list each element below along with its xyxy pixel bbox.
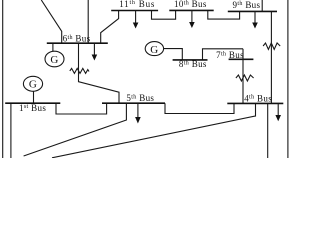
svg-text:G: G xyxy=(50,54,58,66)
wire generator tick at 6th bus xyxy=(52,43,54,51)
bus bar 6th xyxy=(47,42,108,44)
wire from top edge to 6th bus xyxy=(87,0,89,43)
wire 9th bus down to 4th bus xyxy=(270,11,272,103)
wire from 9th bus up to top edge xyxy=(261,0,263,11)
load arrow at 9th bus xyxy=(252,11,258,28)
svg-text:4th Bus: 4th Bus xyxy=(244,93,272,103)
frame left border xyxy=(2,0,4,158)
load arrow at 11th bus xyxy=(133,11,139,29)
wire 7th bus down to 4th bus xyxy=(242,49,244,104)
svg-text:1st Bus: 1st Bus xyxy=(19,103,46,113)
wire link 1st bus to 5th bus xyxy=(56,103,107,114)
load arrow at 5th bus xyxy=(135,103,141,123)
wire link 5th bus to 4th bus xyxy=(165,103,234,113)
resistor zigzag in 6th-5th line xyxy=(70,68,89,73)
frame right border xyxy=(287,0,289,158)
svg-text:G: G xyxy=(150,44,158,56)
svg-text:7th Bus: 7th Bus xyxy=(216,50,244,60)
svg-text:G: G xyxy=(29,79,37,91)
wire diagonal line from 4th bus to lower-left xyxy=(52,103,256,157)
bus bar 11th xyxy=(111,10,158,12)
bus bar 10th xyxy=(169,9,213,11)
generator at 6th bus xyxy=(45,51,64,67)
resistor zigzag in 7th-4th line xyxy=(236,75,254,81)
wire link 10th bus to 9th bus xyxy=(208,10,240,19)
wire generator G2 to 8th bus xyxy=(164,49,183,60)
generator at 1st bus xyxy=(23,76,42,91)
wire link 11th bus to 10th bus xyxy=(152,10,176,19)
load arrow at 4th bus xyxy=(275,103,281,121)
bus bar 5th xyxy=(102,102,165,104)
wire 4th bus down to bottom edge xyxy=(267,103,269,158)
svg-text:10th Bus: 10th Bus xyxy=(174,0,207,9)
wire generator tick at 1st bus xyxy=(33,91,35,103)
wire link 8th bus to 7th bus xyxy=(203,49,244,60)
bus bar 8th xyxy=(173,59,208,61)
load arrow at 6th bus xyxy=(92,43,98,60)
load arrow at 10th bus xyxy=(189,10,195,28)
wire diagonal from top edge into 6th bus xyxy=(41,0,61,43)
wire diagonal line from 5th bus to lower-left xyxy=(24,103,127,156)
bus bar 7th xyxy=(229,58,254,60)
resistor zigzag in 9th-4th line xyxy=(263,43,280,49)
wire 6th bus to 5th bus xyxy=(79,43,120,103)
svg-text:5th Bus: 5th Bus xyxy=(126,93,154,103)
bus bar 9th xyxy=(228,10,277,12)
svg-text:11th Bus: 11th Bus xyxy=(119,0,155,9)
generator at 8th bus xyxy=(145,42,163,56)
bus bar 4th xyxy=(227,102,283,104)
svg-text:9th Bus: 9th Bus xyxy=(233,0,261,10)
svg-text:8th Bus: 8th Bus xyxy=(179,59,207,69)
svg-text:6th Bus: 6th Bus xyxy=(63,34,91,44)
bus bar 1st xyxy=(5,102,60,104)
wire 1st bus down to bottom edge xyxy=(10,103,12,158)
wire link 11th bus to 6th bus xyxy=(101,11,119,44)
